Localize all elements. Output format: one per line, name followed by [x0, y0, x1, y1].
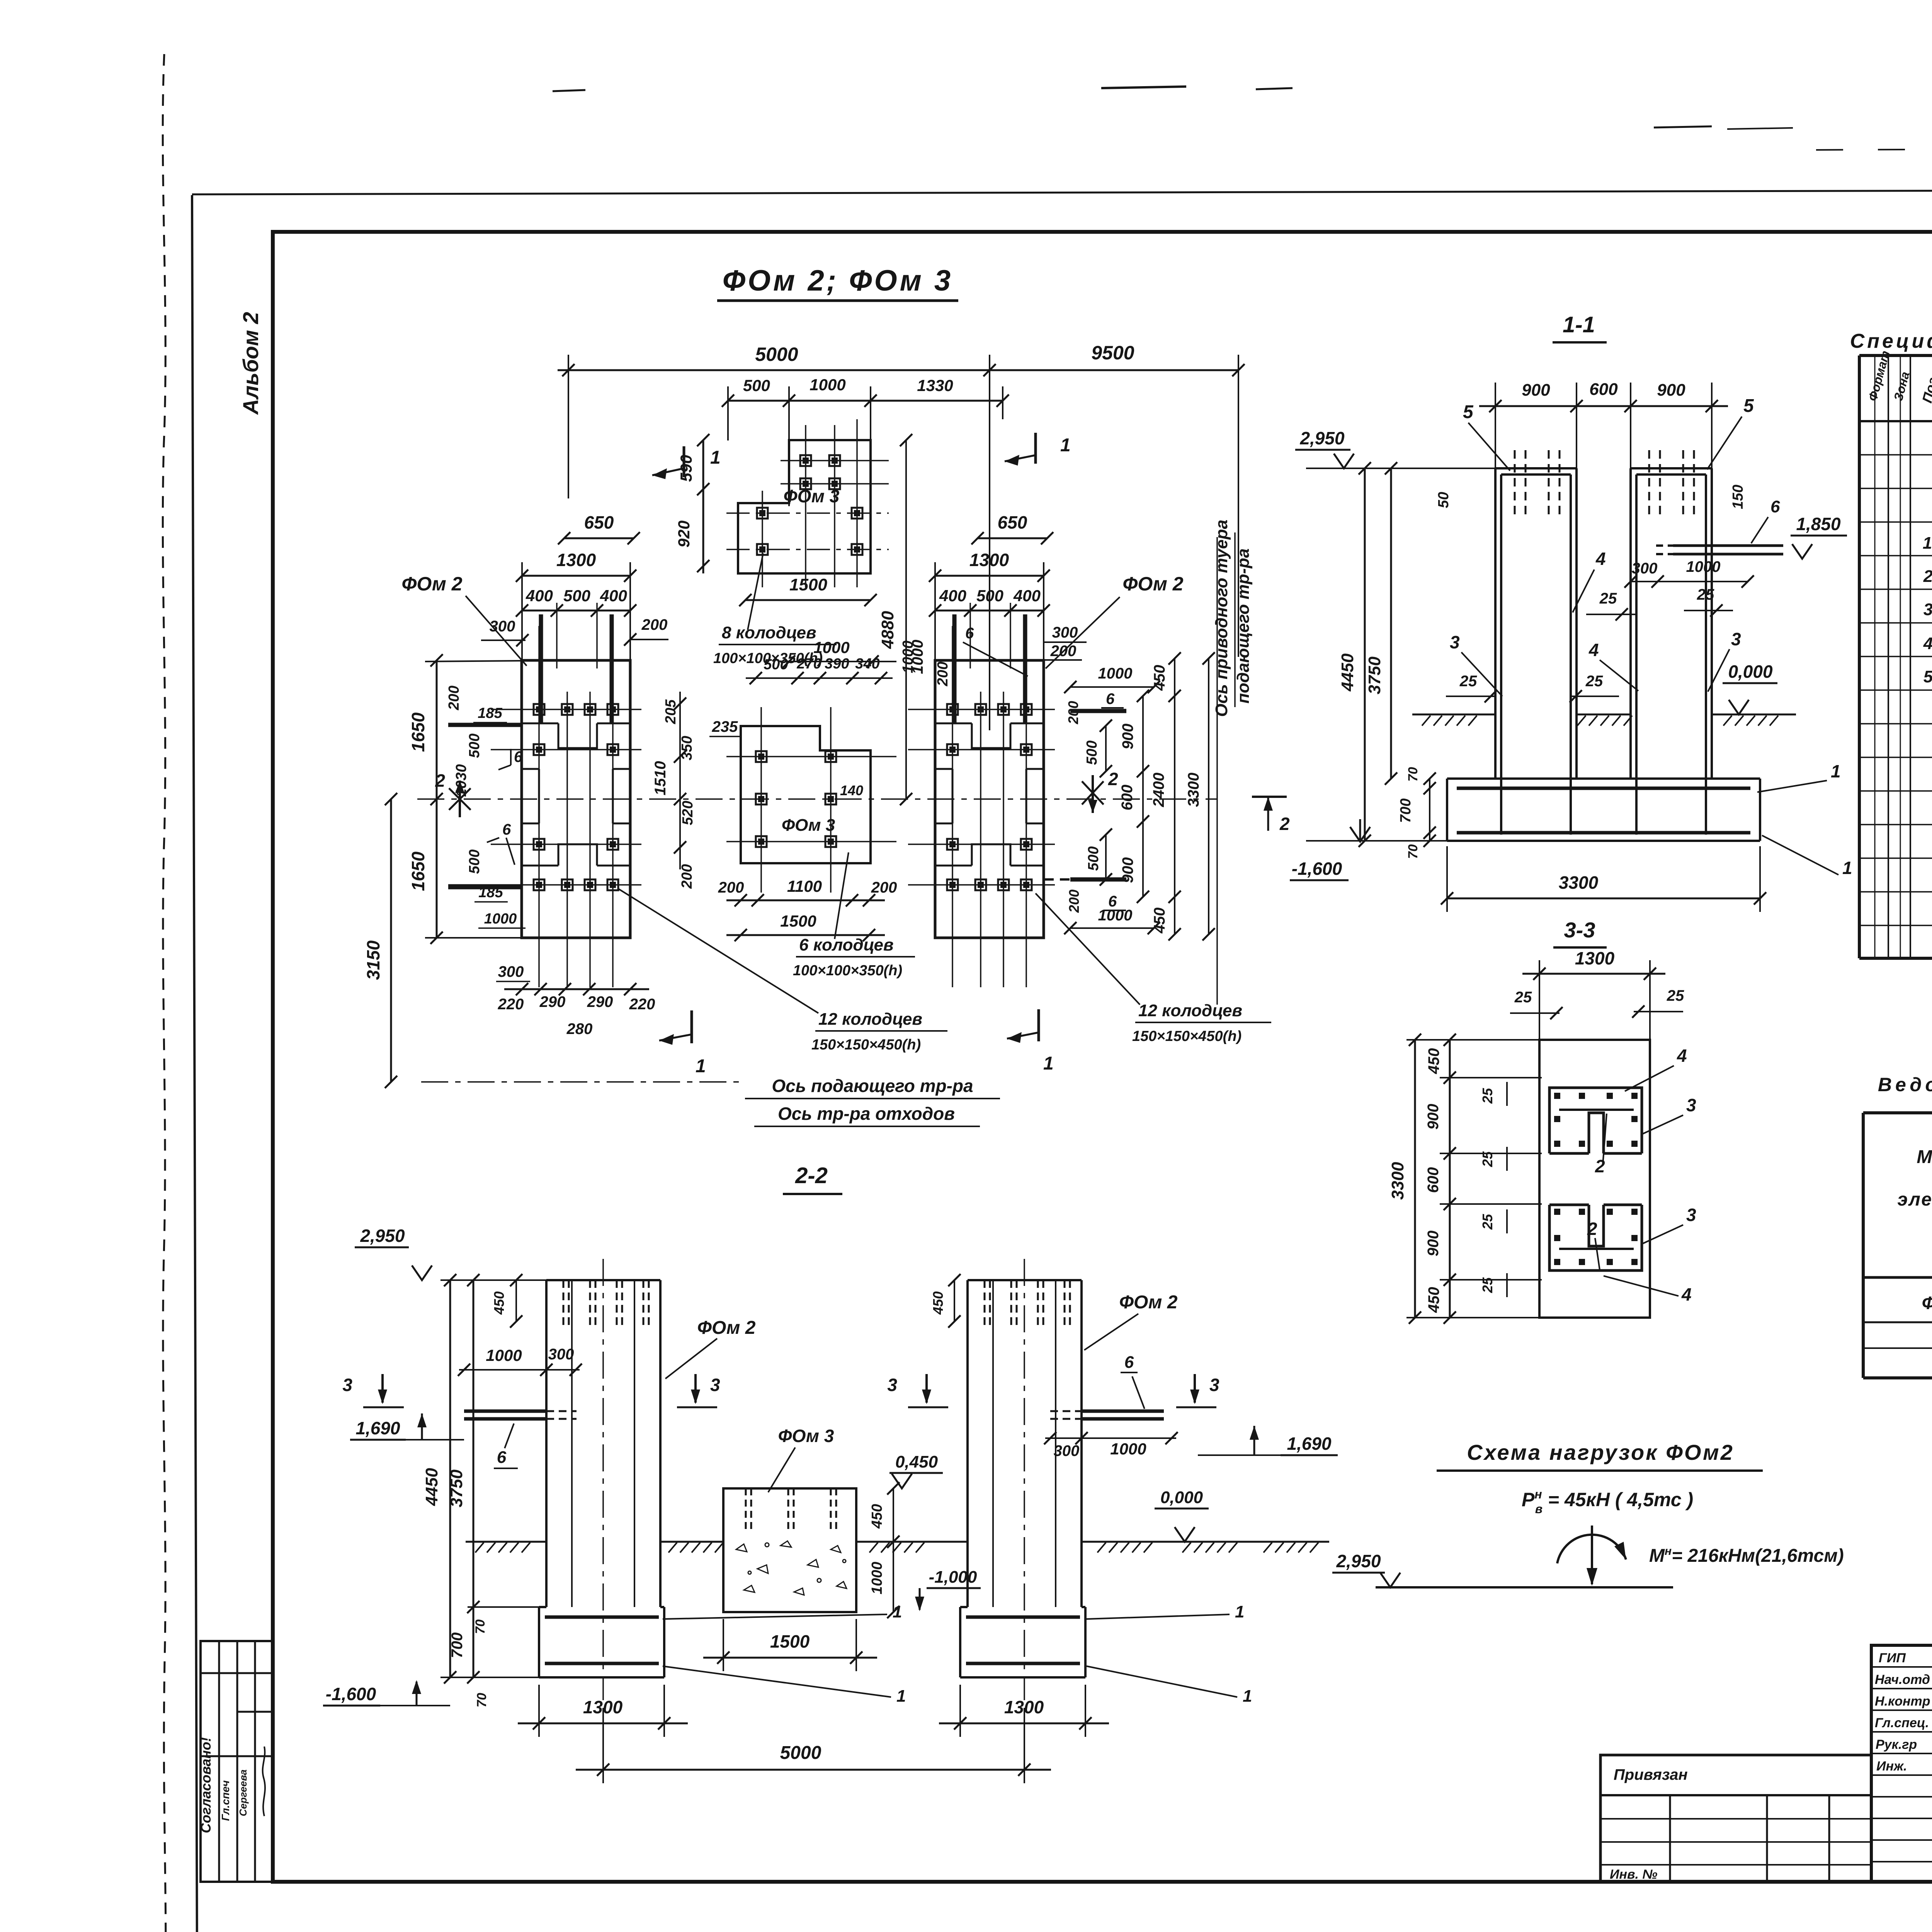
- svg-text:1300: 1300: [556, 550, 596, 570]
- section 1-1 bottom dim 3300: [1447, 898, 1760, 900]
- title block signature texts: [1875, 1651, 1932, 1774]
- svg-text:900: 900: [1522, 381, 1550, 400]
- approval table bottom left (Согласовано): [201, 1641, 273, 1882]
- plan FOm2 right: chain 900 600 900: [1142, 696, 1144, 897]
- svg-text:340: 340: [855, 656, 879, 672]
- plan FOm3 bottom: axis lines: [726, 707, 896, 893]
- svg-text:300: 300: [490, 618, 515, 635]
- svg-text:ФОм 2: ФОм 2: [401, 573, 462, 595]
- section 3-3 outline: [1539, 1040, 1650, 1318]
- svg-text:ФОм 2: ФОм 2: [1122, 573, 1183, 595]
- svg-text:1: 1: [1923, 534, 1932, 553]
- svg-text:ФОм 3: ФОм 3: [784, 486, 840, 506]
- svg-text:450: 450: [1425, 1048, 1442, 1075]
- svg-text:200: 200: [1065, 701, 1081, 724]
- section 1-1 column outlines: [1495, 468, 1712, 779]
- svg-text:3300: 3300: [1559, 872, 1599, 893]
- section 3-3 cover dim lines 25: [1506, 1082, 1508, 1297]
- svg-text:6: 6: [1770, 497, 1780, 516]
- svg-text:300: 300: [548, 1346, 574, 1363]
- svg-text:500: 500: [466, 849, 483, 874]
- svg-text:300: 300: [1054, 1442, 1080, 1459]
- svg-text:290: 290: [539, 993, 566, 1010]
- svg-text:ФОм 2: ФОм 2: [1922, 1293, 1932, 1313]
- svg-text:4880: 4880: [878, 611, 897, 649]
- svg-text:140: 140: [840, 782, 863, 798]
- svg-text:650: 650: [584, 512, 614, 532]
- section 1-1 dims 300 1000: [1631, 581, 1748, 582]
- svg-text:200: 200: [641, 616, 668, 633]
- svg-text:4: 4: [1588, 640, 1599, 660]
- svg-text:1500: 1500: [770, 1631, 810, 1651]
- svg-text:1-1: 1-1: [1563, 312, 1595, 337]
- svg-text:500: 500: [976, 587, 1003, 605]
- svg-text:Сергеева: Сергеева: [237, 1769, 249, 1816]
- plan FOm2 right: anchor wells: [947, 704, 958, 715]
- svg-text:1000: 1000: [869, 1562, 885, 1595]
- plan FOm2 right: embedded plate bars item 6: [952, 614, 957, 723]
- section marker 1 bottom left: [690, 1010, 693, 1043]
- svg-text:4: 4: [1681, 1284, 1692, 1304]
- svg-text:2-2: 2-2: [795, 1163, 828, 1188]
- section 1-1 footing rebar meshes item 1: [1457, 787, 1750, 790]
- section 2-2 slot depth labels 450: [515, 1280, 517, 1321]
- svg-text:1: 1: [1842, 858, 1852, 878]
- svg-text:1: 1: [1235, 1602, 1244, 1621]
- svg-text:подающего тр-ра: подающего тр-ра: [1234, 548, 1253, 703]
- svg-text:2,950: 2,950: [1336, 1551, 1381, 1571]
- svg-text:5: 5: [1743, 396, 1754, 416]
- svg-text:400: 400: [600, 587, 627, 605]
- section 2-2 left column anchor slots: [563, 1280, 649, 1326]
- section 2-2 right column anchor slots: [985, 1280, 1070, 1326]
- svg-text:700: 700: [1398, 798, 1414, 823]
- svg-text:920: 920: [675, 520, 693, 548]
- plan FOm2 left: dimension 650: [564, 537, 634, 539]
- svg-text:6: 6: [497, 1448, 507, 1467]
- plan FOm2 right: outline: [935, 660, 1044, 938]
- svg-text:Инж.: Инж.: [1876, 1759, 1907, 1774]
- svg-text:400: 400: [526, 587, 553, 605]
- svg-text:Ось приводного туера: Ось приводного туера: [1212, 520, 1231, 717]
- svg-text:600: 600: [1119, 785, 1136, 811]
- svg-text:450: 450: [1425, 1287, 1442, 1313]
- svg-text:590: 590: [677, 455, 695, 482]
- svg-text:400: 400: [939, 587, 966, 605]
- svg-text:220: 220: [498, 996, 524, 1013]
- svg-text:Ось подающего тр-ра: Ось подающего тр-ра: [772, 1076, 973, 1096]
- svg-text:1: 1: [1060, 435, 1071, 456]
- svg-text:450: 450: [491, 1291, 507, 1315]
- plan FOm2 left: anchor wells: [534, 704, 544, 715]
- svg-text:450: 450: [869, 1504, 885, 1529]
- svg-text:150×150×450(h): 150×150×450(h): [811, 1037, 921, 1053]
- svg-text:ФОм 2: ФОм 2: [697, 1318, 756, 1338]
- svg-text:1: 1: [1831, 761, 1841, 781]
- section 2-2 left footing: [539, 1607, 664, 1677]
- svg-text:1000: 1000: [486, 1346, 522, 1364]
- svg-text:1: 1: [1043, 1053, 1054, 1074]
- svg-text:4: 4: [1677, 1046, 1687, 1066]
- svg-text:4: 4: [1923, 634, 1932, 653]
- svg-text:0,000: 0,000: [1728, 662, 1773, 682]
- svg-text:Нач.отд: Нач.отд: [1875, 1672, 1930, 1687]
- section 3-3 rebar cage top: [1549, 1088, 1642, 1153]
- svg-text:Ведомость расхода стали на оди: Ведомость расхода стали на один элемент,…: [1878, 1074, 1932, 1095]
- section marker 1 bottom right: [1037, 1009, 1040, 1041]
- svg-text:-1,000: -1,000: [929, 1568, 977, 1587]
- plan FOm2 right: upper plate dims 1000 200 6: [1070, 686, 1154, 688]
- svg-text:0,450: 0,450: [895, 1452, 938, 1471]
- svg-text:1,690: 1,690: [1287, 1434, 1332, 1454]
- svg-text:2: 2: [1923, 567, 1932, 586]
- svg-text:520: 520: [680, 801, 696, 825]
- section marker 1 top right: [1034, 433, 1037, 464]
- svg-text:1000: 1000: [1098, 665, 1133, 682]
- svg-text:0,000: 0,000: [1160, 1488, 1203, 1507]
- svg-text:70: 70: [1406, 844, 1420, 859]
- svg-text:Марка: Марка: [1917, 1147, 1932, 1167]
- svg-text:300: 300: [1052, 624, 1078, 641]
- svg-text:25: 25: [1514, 989, 1532, 1006]
- svg-text:2400: 2400: [1150, 773, 1167, 808]
- svg-text:1: 1: [710, 447, 721, 468]
- svg-text:500: 500: [764, 656, 788, 673]
- svg-text:5: 5: [1923, 667, 1932, 686]
- svg-text:3: 3: [887, 1375, 897, 1395]
- svg-text:3150: 3150: [363, 940, 383, 980]
- svg-text:1100: 1100: [787, 877, 822, 895]
- page outer thin left border line: [192, 195, 197, 1932]
- plan FOm3 top: vertical dim 4880: [905, 440, 907, 799]
- section marker 1 top left: [683, 446, 685, 477]
- page outer wavy dashed cut line left: [163, 54, 166, 1932]
- plan FOm2 left: dimension 300 / 200: [481, 639, 526, 641]
- svg-text:Спецификация элементов монолит: Спецификация элементов монолитной констр…: [1850, 330, 1932, 352]
- section 1-1 left chain 4450: [1364, 468, 1366, 841]
- svg-text:6: 6: [965, 625, 974, 642]
- plan FOm3 top: dimension 1500: [745, 599, 871, 601]
- svg-text:Согласовано!: Согласовано!: [198, 1737, 214, 1833]
- svg-text:3: 3: [1686, 1205, 1696, 1225]
- svg-text:6: 6: [1108, 893, 1117, 910]
- svg-text:1300: 1300: [1575, 948, 1615, 968]
- svg-text:3: 3: [1923, 600, 1932, 619]
- svg-text:25: 25: [1480, 1151, 1495, 1167]
- svg-text:1650: 1650: [408, 851, 428, 891]
- svg-text:70: 70: [1406, 767, 1420, 782]
- section 3-3 rebar cage bottom: [1549, 1205, 1642, 1270]
- plan centerline axis: [417, 798, 1217, 800]
- svg-text:3300: 3300: [1185, 773, 1202, 807]
- svg-text:Схема нагрузок ФОм2: Схема нагрузок ФОм2: [1467, 1440, 1734, 1464]
- svg-text:235: 235: [712, 718, 738, 735]
- svg-text:300: 300: [1632, 560, 1658, 577]
- svg-text:220: 220: [629, 996, 655, 1013]
- plan FOm2 right: dimension 650: [978, 537, 1047, 539]
- svg-text:450: 450: [1151, 908, 1168, 934]
- svg-text:5000: 5000: [780, 1743, 821, 1763]
- svg-text:270: 270: [796, 656, 821, 672]
- section 1-1 chain 70 700 70: [1429, 779, 1430, 841]
- svg-text:25: 25: [1480, 1277, 1495, 1293]
- section 1-1 anchor bolts dashed: [1515, 450, 1694, 518]
- plan FOm2 left: vertical chain 3150: [390, 799, 392, 1082]
- svg-text:450: 450: [1151, 665, 1168, 691]
- svg-text:70: 70: [473, 1619, 488, 1634]
- svg-text:1,690: 1,690: [355, 1418, 400, 1438]
- svg-text:200: 200: [446, 685, 462, 710]
- plan FOm2 left: bottom dimension chains: [504, 988, 649, 990]
- svg-text:2: 2: [1279, 814, 1290, 834]
- plan FOm3 bottom: bottom dims 200 1100 200 / 1500: [726, 900, 885, 901]
- section 2-2 right column: [968, 1280, 1082, 1607]
- section 2-2 dim 1300 left: [518, 1723, 688, 1725]
- steel table grid: [1863, 1113, 1932, 1378]
- section 2-2 dim 1300 right: [939, 1723, 1109, 1725]
- section 2-2 chain 4450: [449, 1280, 451, 1677]
- svg-text:300: 300: [498, 963, 524, 980]
- svg-text:25: 25: [1667, 987, 1684, 1004]
- svg-text:900: 900: [1119, 724, 1136, 750]
- bottom feed axis note: [421, 1081, 742, 1083]
- svg-text:1: 1: [696, 1056, 706, 1077]
- svg-text:1: 1: [896, 1687, 906, 1706]
- title block left extension: [1600, 1755, 1871, 1882]
- svg-text:1650: 1650: [408, 712, 428, 752]
- plan FOm2 right: chain 3300: [1208, 658, 1209, 934]
- svg-text:Рук.гр: Рук.гр: [1876, 1737, 1917, 1752]
- svg-text:Привязан: Привязан: [1614, 1766, 1688, 1783]
- svg-text:2,950: 2,950: [1299, 428, 1345, 448]
- section 2-2 FOm3 block: [723, 1488, 856, 1612]
- plan FOm2 right: axis grid lines: [908, 603, 1055, 987]
- spec table grid: [1859, 355, 1932, 958]
- svg-text:25: 25: [1459, 673, 1477, 690]
- svg-text:900: 900: [1425, 1104, 1442, 1130]
- svg-text:500: 500: [563, 587, 590, 605]
- svg-text:ФОм 2: ФОм 2: [1119, 1292, 1178, 1313]
- load scheme force arrow: [1591, 1526, 1593, 1584]
- svg-text:1: 1: [893, 1602, 902, 1621]
- section 2-2 FOm3 concrete speckles: [736, 1541, 847, 1595]
- section 2-2 chain 3750: [473, 1280, 474, 1677]
- svg-text:1: 1: [1243, 1687, 1252, 1706]
- svg-text:Мн= 216кНм(21,6тсм): Мн= 216кНм(21,6тсм): [1649, 1545, 1844, 1566]
- svg-text:1000: 1000: [484, 911, 517, 927]
- section 2-2 right footing: [960, 1607, 1085, 1677]
- svg-text:500: 500: [1085, 846, 1102, 871]
- title block signature table: [1871, 1645, 1932, 1882]
- plan FOm2 right: chain 450 2400 450: [1174, 658, 1175, 934]
- top dimension chain 500 1000 1330: [728, 386, 1003, 506]
- section 2-2 plate dims 300 1000 right: [1045, 1437, 1176, 1439]
- svg-text:280: 280: [566, 1020, 593, 1037]
- svg-text:500: 500: [1084, 740, 1100, 765]
- section 3-3 chain 3300: [1414, 1040, 1416, 1318]
- svg-text:290: 290: [587, 993, 613, 1010]
- plan FOm2 left: embedded plate bars item 6: [539, 614, 543, 723]
- plan FOm2 right: chain 500 / 500: [1105, 726, 1107, 771]
- svg-text:150×150×450(h): 150×150×450(h): [1132, 1028, 1242, 1044]
- svg-text:1300: 1300: [969, 550, 1009, 570]
- svg-text:350: 350: [679, 736, 695, 760]
- svg-text:1000: 1000: [1110, 1440, 1146, 1458]
- svg-text:4: 4: [1595, 549, 1606, 569]
- svg-text:6: 6: [502, 821, 511, 838]
- svg-text:3: 3: [710, 1375, 720, 1395]
- section 2-2 markers 3: [381, 1374, 384, 1403]
- svg-text:650: 650: [998, 512, 1027, 532]
- section 1-1 top dims 900 600 900: [1479, 383, 1728, 487]
- svg-text:3: 3: [1450, 632, 1460, 652]
- main drawing frame: [273, 232, 1932, 1882]
- plan FOm3 top: anchor wells: [800, 455, 811, 466]
- plan FOm3 top: axis lines: [726, 419, 889, 587]
- section 1-1 embedded plate item 6: [1673, 544, 1783, 547]
- svg-text:1330: 1330: [917, 376, 953, 395]
- svg-text:1510: 1510: [652, 761, 669, 796]
- section 1-1 footing: [1447, 779, 1760, 841]
- top dimension 5000: [558, 355, 990, 730]
- plan FOm2 right: dimension 1300: [935, 575, 1044, 577]
- svg-text:6: 6: [1124, 1353, 1134, 1372]
- svg-text:3: 3: [1209, 1375, 1219, 1395]
- svg-text:6: 6: [1106, 690, 1115, 707]
- svg-text:25: 25: [1480, 1214, 1495, 1230]
- top scan speckle dashes: [553, 90, 585, 91]
- svg-text:3: 3: [342, 1375, 352, 1395]
- section 3-3 chain 450 900 600 900 450: [1449, 1040, 1451, 1318]
- svg-text:900: 900: [1657, 381, 1685, 400]
- svg-text:3300: 3300: [1388, 1162, 1407, 1200]
- svg-text:600: 600: [1425, 1167, 1442, 1193]
- svg-text:Гл.спец.: Гл.спец.: [1875, 1716, 1929, 1730]
- svg-text:3-3: 3-3: [1564, 918, 1595, 942]
- svg-text:5: 5: [1463, 402, 1474, 422]
- svg-text:500: 500: [466, 733, 483, 758]
- svg-text:200: 200: [1066, 889, 1082, 913]
- svg-text:25: 25: [1599, 590, 1617, 607]
- svg-text:25: 25: [1585, 673, 1603, 690]
- svg-text:50: 50: [1435, 492, 1452, 508]
- svg-text:6: 6: [514, 748, 523, 765]
- plan FOm3 top: left chain 590 920: [702, 440, 704, 573]
- svg-text:ФОм 2; ФОм 3: ФОм 2; ФОм 3: [723, 264, 953, 297]
- svg-text:Ось тр-ра отходов: Ось тр-ра отходов: [778, 1104, 955, 1124]
- svg-text:8 колодцев: 8 колодцев: [722, 623, 816, 642]
- svg-text:205: 205: [663, 699, 679, 724]
- svg-text:185: 185: [478, 884, 503, 901]
- plan FOm3 bottom: left chain 205 350 520 1510 200: [679, 692, 681, 869]
- svg-text:185: 185: [478, 705, 502, 721]
- plan FOm3 bottom: anchor wells: [756, 751, 767, 762]
- section 2-2 dim 1500 under FOm3: [703, 1657, 877, 1659]
- section 1-1 column rebar lines: [1501, 474, 1706, 835]
- plan FOm2 left: outline: [522, 660, 630, 938]
- svg-text:4450: 4450: [1338, 653, 1357, 692]
- section marker 2 right of plan: [1092, 775, 1094, 813]
- svg-text:4450: 4450: [422, 1468, 441, 1506]
- svg-text:5000: 5000: [755, 344, 798, 365]
- section 2-2 left column: [546, 1280, 660, 1607]
- plan FOm2 left: dimension chain 400 500 400: [522, 610, 630, 612]
- svg-text:12 колодцев: 12 колодцев: [818, 1010, 922, 1029]
- svg-text:1,850: 1,850: [1796, 514, 1841, 534]
- plan FOm2 right: dimension chain 400 500 400: [935, 610, 1044, 612]
- section 2-2 plate dims 1000 300 left: [459, 1369, 580, 1371]
- svg-text:3750: 3750: [447, 1469, 466, 1507]
- svg-text:100×100×350(h): 100×100×350(h): [793, 963, 902, 979]
- svg-text:450: 450: [930, 1291, 946, 1315]
- load scheme moment arc: [1557, 1535, 1626, 1563]
- svg-text:1000: 1000: [900, 641, 916, 673]
- svg-text:200: 200: [935, 662, 951, 686]
- plan FOm2 left: vertical chain 1650 1650: [436, 660, 438, 938]
- svg-text:600: 600: [1589, 380, 1618, 399]
- svg-text:200: 200: [679, 864, 695, 889]
- svg-text:2: 2: [435, 770, 445, 791]
- svg-text:200: 200: [871, 879, 897, 896]
- svg-text:3: 3: [1731, 629, 1741, 649]
- svg-text:1000: 1000: [1686, 558, 1721, 575]
- svg-text:3750: 3750: [1365, 656, 1384, 694]
- page outer thin top border line: [192, 189, 1932, 194]
- section marker 2 left: [459, 781, 461, 817]
- svg-text:25: 25: [1697, 586, 1714, 603]
- svg-text:1500: 1500: [780, 912, 816, 930]
- svg-text:ГИП: ГИП: [1879, 1651, 1906, 1665]
- svg-text:150: 150: [1730, 485, 1746, 509]
- svg-text:ФОм 3: ФОм 3: [778, 1426, 834, 1446]
- top dimension 9500: [990, 355, 1238, 657]
- plan FOm2 left: axis grid lines: [448, 603, 641, 987]
- svg-text:ФОм 3: ФОм 3: [782, 816, 835, 835]
- section 2-2 embedded plate 6 left: [464, 1410, 546, 1413]
- section 1-1 ground line with hatch: [1412, 714, 1796, 716]
- svg-text:900: 900: [1119, 857, 1136, 883]
- svg-text:3: 3: [1686, 1095, 1696, 1115]
- plan FOm2 left: dimension 1300: [522, 575, 630, 577]
- plan FOm2 right: lower plate dims 1000 200 6: [1070, 927, 1154, 929]
- svg-text:Альбом 2: Альбом 2: [238, 312, 263, 415]
- svg-text:1000: 1000: [810, 376, 845, 394]
- svg-text:500: 500: [743, 376, 770, 395]
- section 2-2 embedded plate 6 right: [1082, 1410, 1164, 1413]
- section 1-1 left chain 3750: [1390, 468, 1392, 779]
- plan FOm3 bottom: outline: [741, 726, 871, 863]
- section 2-2 chain 450 1000 right of FOm3: [893, 1488, 894, 1612]
- load scheme base line: [1376, 1586, 1673, 1588]
- section 3-3 top dim 1300: [1522, 973, 1665, 975]
- svg-text:2: 2: [1108, 769, 1118, 789]
- svg-text:-1,600: -1,600: [326, 1684, 376, 1704]
- svg-text:9500: 9500: [1091, 342, 1134, 364]
- svg-text:2,950: 2,950: [360, 1226, 405, 1246]
- svg-text:-1,600: -1,600: [1292, 859, 1342, 879]
- svg-text:Инв. №: Инв. №: [1610, 1867, 1657, 1882]
- svg-text:70: 70: [474, 1693, 489, 1708]
- svg-text:Н.контр: Н.контр: [1875, 1694, 1930, 1709]
- section 2-2 dim 5000: [576, 1769, 1051, 1771]
- svg-text:390: 390: [825, 656, 849, 672]
- section marker 2 far right: [1252, 796, 1287, 798]
- svg-text:900: 900: [1425, 1231, 1442, 1257]
- svg-text:200: 200: [718, 879, 744, 896]
- svg-text:Гл.спеч: Гл.спеч: [219, 1780, 231, 1821]
- plan FOm3 top: outline: [738, 440, 871, 573]
- svg-text:элемента: элемента: [1898, 1189, 1932, 1210]
